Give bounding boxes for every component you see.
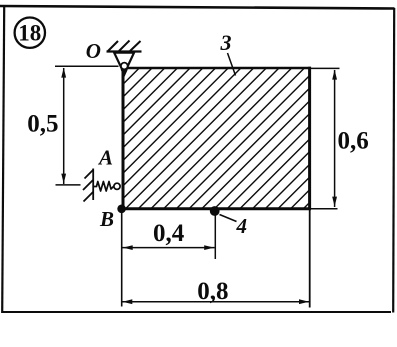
spring wall (hatched) xyxy=(83,169,94,202)
svg-text:3: 3 xyxy=(220,30,232,55)
dimension 0,8: value label xyxy=(197,278,228,305)
spring AB xyxy=(94,182,114,192)
pin support O: pin circle xyxy=(121,63,128,70)
dimension 0,5: value label xyxy=(27,110,58,137)
dimension 0,8: dimension line with arrows xyxy=(122,299,309,304)
dimension 0,5: extension lines xyxy=(55,66,119,185)
leader line for label 4 xyxy=(220,215,237,222)
pin support O: hatched ceiling xyxy=(107,41,142,52)
svg-text:18: 18 xyxy=(18,21,41,46)
label O xyxy=(86,39,101,63)
plate 3 (hatched rectangle) xyxy=(122,67,311,210)
svg-text:0,4: 0,4 xyxy=(153,220,185,247)
svg-text:0,5: 0,5 xyxy=(27,110,58,137)
dimension 0,4: value label xyxy=(153,220,185,247)
svg-text:0,8: 0,8 xyxy=(197,278,228,305)
label A xyxy=(97,146,113,170)
svg-text:0,6: 0,6 xyxy=(338,127,369,154)
spring pin circle at A xyxy=(114,183,120,189)
dimension 0,8: right extension line (below plate corner) xyxy=(309,210,311,308)
dimension 0,5: dimension line with arrows xyxy=(61,68,66,184)
svg-text:B: B xyxy=(99,207,114,231)
label B xyxy=(99,207,114,231)
dimension 0,6: dimension line with arrows xyxy=(332,70,337,207)
leader line for label 3 xyxy=(228,53,236,76)
label 3 xyxy=(220,30,232,55)
point 4 (dot on bottom edge) xyxy=(210,206,220,216)
pin support O: triangle xyxy=(114,53,134,78)
label 4 xyxy=(236,214,248,238)
point B (pivot dot) xyxy=(117,205,126,214)
dimension 0,4: dimension line with arrows xyxy=(123,245,215,250)
dimension 0,8: left extension line (below B) xyxy=(121,213,123,307)
svg-text:A: A xyxy=(97,146,113,170)
dimension 0,6: value label xyxy=(338,127,369,154)
svg-text:4: 4 xyxy=(236,214,248,238)
dimension 0,4: extension line below point 4 xyxy=(214,215,216,259)
svg-text:O: O xyxy=(86,39,101,63)
dimension 0,6: extension lines xyxy=(311,68,340,208)
problem number badge 18 xyxy=(15,18,45,48)
